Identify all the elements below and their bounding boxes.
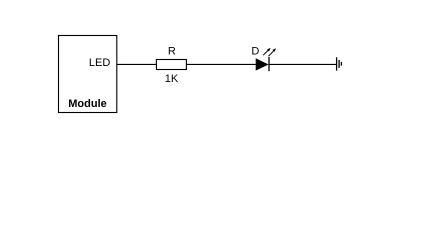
wire from module LED pin to resistor R [117,63,157,65]
ground bar 3 [340,62,342,66]
ground bar 1 [336,57,338,70]
wire from LED D cathode to ground [269,63,336,65]
svg-text:1K: 1K [165,73,179,85]
module box U1 [59,36,117,113]
LED D anode triangle [256,58,269,70]
svg-text:LED: LED [89,57,110,69]
svg-text:R: R [168,46,176,58]
LED emission arrow 1 [263,48,271,55]
LED D cathode bar [268,57,270,71]
resistor R body [156,60,186,70]
svg-text:Module: Module [68,98,107,110]
svg-text:D: D [251,46,259,58]
LED emission arrow 2 [269,48,277,56]
ground bar 2 [338,60,340,68]
wire from resistor R to LED D anode [186,63,255,65]
